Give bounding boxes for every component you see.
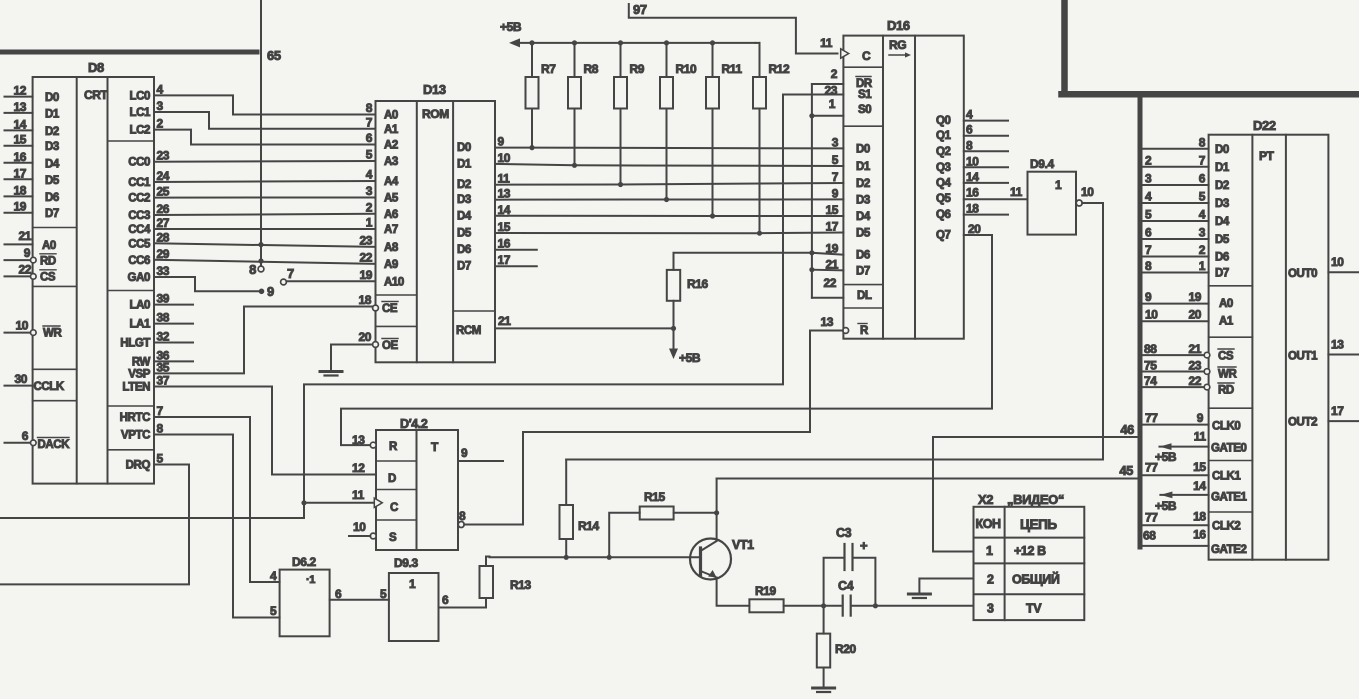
svg-text:19: 19 xyxy=(359,268,372,282)
wire D0 data line D13 to D16 xyxy=(495,147,843,150)
svg-text:R7: R7 xyxy=(541,62,556,76)
D22 pin 1 D7 xyxy=(1143,272,1209,274)
wire D3 data line D13 to D16 xyxy=(495,198,843,200)
svg-text:9: 9 xyxy=(1145,290,1152,304)
wire D7 stub from D13 xyxy=(495,265,537,267)
wire R11 top to rail xyxy=(712,43,714,77)
svg-text:21: 21 xyxy=(1188,342,1201,356)
svg-text:D0: D0 xyxy=(1215,144,1229,156)
wire D6 stub from D13 xyxy=(495,249,537,251)
svg-text:HLGT: HLGT xyxy=(120,338,150,350)
svg-text:9: 9 xyxy=(498,135,505,149)
svg-text:5: 5 xyxy=(157,452,164,466)
D8 pin 19 D7 xyxy=(5,212,33,214)
svg-text:CC0: CC0 xyxy=(128,157,150,169)
svg-text:13: 13 xyxy=(13,100,26,114)
svg-text:1: 1 xyxy=(366,216,373,230)
svg-text:R15: R15 xyxy=(644,490,666,504)
svg-text:17: 17 xyxy=(13,166,26,180)
svg-text:18: 18 xyxy=(13,183,26,197)
svg-text:74: 74 xyxy=(1144,374,1157,388)
D16 pin 22 DL input wire xyxy=(812,297,844,299)
svg-text:D7: D7 xyxy=(856,265,870,277)
D13 left column divider xyxy=(376,294,417,296)
svg-text:HRTC: HRTC xyxy=(120,412,150,424)
svg-text:A8: A8 xyxy=(384,242,399,254)
wire Q7 to flip-flop R (long path) xyxy=(341,235,992,445)
svg-text:A3: A3 xyxy=(384,156,398,168)
svg-text:A7: A7 xyxy=(384,224,398,236)
wire C3 right leg xyxy=(854,558,876,606)
wire S1 long path to flip-flop C xyxy=(0,95,843,519)
svg-text:RD: RD xyxy=(40,255,56,267)
resistor R9 xyxy=(614,77,627,109)
svg-text:VSP: VSP xyxy=(128,368,151,380)
svg-text:6: 6 xyxy=(966,123,973,137)
svg-text:7: 7 xyxy=(157,404,164,418)
svg-text:68: 68 xyxy=(1143,529,1156,543)
wire D5 data line D13 to D16 xyxy=(495,232,843,235)
svg-text:+5В: +5В xyxy=(1155,499,1177,513)
svg-text:RD: RD xyxy=(1218,385,1234,397)
svg-text:WR: WR xyxy=(1218,369,1237,381)
svg-text:22: 22 xyxy=(18,263,31,277)
svg-text:77: 77 xyxy=(1145,411,1158,425)
svg-text:26: 26 xyxy=(157,202,170,216)
svg-text:D3: D3 xyxy=(45,141,59,153)
svg-text:CLK1: CLK1 xyxy=(1212,471,1241,483)
svg-text:A2: A2 xyxy=(384,140,398,152)
wire CC1 to A4 xyxy=(154,181,376,182)
D8 pin 21 A0 xyxy=(5,243,33,245)
junction dot at flip-flop C line xyxy=(301,500,306,505)
svg-text:8: 8 xyxy=(1199,135,1206,149)
svg-text:CC5: CC5 xyxy=(128,238,151,250)
D16 left column cell dividers xyxy=(843,66,883,68)
svg-text:33: 33 xyxy=(157,264,170,278)
wire CC5 to A8 xyxy=(154,243,376,247)
svg-text:OUT1: OUT1 xyxy=(1288,351,1318,363)
svg-text:D7: D7 xyxy=(45,208,59,220)
svg-text:17: 17 xyxy=(498,253,511,267)
D8 pin 10 WR (active low) xyxy=(5,332,31,334)
svg-text:8: 8 xyxy=(966,138,973,152)
wire pin 8 to D16 R pin xyxy=(464,331,843,525)
wire line 45 to bus (CLK1) xyxy=(717,478,1140,480)
svg-text:25: 25 xyxy=(157,185,170,199)
svg-text:„ВИДЕО“: „ВИДЕО“ xyxy=(1007,492,1064,507)
wire blink vertical DR/S0/D6/D7/DL chain xyxy=(811,84,813,298)
svg-text:3: 3 xyxy=(366,184,373,198)
wire R7 top to rail xyxy=(531,43,533,77)
svg-text:D4: D4 xyxy=(457,210,472,222)
svg-text:88: 88 xyxy=(1144,342,1157,356)
D8 pin 17 D5 xyxy=(5,178,33,180)
svg-text:RG: RG xyxy=(889,38,906,52)
svg-text:18: 18 xyxy=(1193,510,1206,524)
svg-text:DRQ: DRQ xyxy=(126,460,151,472)
svg-text:10: 10 xyxy=(966,154,979,168)
wire R20 bottom to ground xyxy=(823,668,825,687)
svg-text:D3: D3 xyxy=(856,194,870,206)
svg-text:DACK: DACK xyxy=(38,439,71,451)
node 8 jumper pad at end of line 65 xyxy=(258,266,264,272)
svg-text:37: 37 xyxy=(157,374,170,388)
svg-text:A10: A10 xyxy=(384,276,404,288)
svg-text:LC2: LC2 xyxy=(129,125,150,137)
svg-text:13: 13 xyxy=(820,315,833,329)
svg-text:1: 1 xyxy=(409,577,416,591)
svg-text:2: 2 xyxy=(157,117,164,131)
D22 pin 22 RD (active low) xyxy=(1143,386,1205,388)
wire C line from junction xyxy=(304,502,373,504)
wire VSP to CE xyxy=(154,307,373,374)
svg-text:8: 8 xyxy=(249,262,256,277)
wire R14 top to timer line xyxy=(565,460,567,506)
node 97 tap tick xyxy=(628,4,630,16)
svg-text:D6: D6 xyxy=(856,250,870,262)
svg-text:D5: D5 xyxy=(856,228,871,240)
svg-text:7: 7 xyxy=(1199,153,1206,167)
wire RCM to R16 xyxy=(495,327,674,329)
svg-text:R: R xyxy=(860,325,869,337)
svg-text:CS: CS xyxy=(1218,351,1234,363)
resistor R16 xyxy=(667,270,680,301)
svg-text:T: T xyxy=(431,440,439,454)
D22 pin 6 D2 xyxy=(1143,184,1209,186)
svg-text:GATE1: GATE1 xyxy=(1211,492,1247,504)
svg-text:22: 22 xyxy=(359,250,372,264)
svg-text:D8: D8 xyxy=(88,60,104,75)
svg-text:CC2: CC2 xyxy=(128,193,150,205)
svg-text:10: 10 xyxy=(1331,255,1344,269)
svg-text:5: 5 xyxy=(832,153,839,167)
svg-text:1: 1 xyxy=(1055,178,1062,192)
flip-flop D14.2 body xyxy=(376,430,458,550)
wire +12V line 46 from bus to X2 pin 1 xyxy=(933,437,1140,552)
svg-text:16: 16 xyxy=(1193,528,1206,542)
svg-text:S0: S0 xyxy=(858,104,871,116)
svg-text:16: 16 xyxy=(966,186,979,200)
svg-text:LTEN: LTEN xyxy=(122,382,150,394)
svg-text:3: 3 xyxy=(157,99,164,113)
D22 pin 9 CLK0 xyxy=(1143,424,1209,426)
svg-text:13: 13 xyxy=(352,433,365,447)
svg-text:PT: PT xyxy=(1259,149,1275,163)
svg-text:D3: D3 xyxy=(1215,198,1229,210)
wire Q5 to D9.4 input xyxy=(964,198,1028,200)
svg-text:+12 В: +12 В xyxy=(1014,544,1046,558)
svg-text:D16: D16 xyxy=(887,18,910,33)
svg-text:29: 29 xyxy=(157,247,170,261)
IC D16 register body xyxy=(843,36,963,339)
svg-text:D6: D6 xyxy=(457,244,471,256)
svg-text:CRT: CRT xyxy=(84,88,109,102)
svg-text:7: 7 xyxy=(366,115,373,129)
svg-text:7: 7 xyxy=(832,170,839,184)
svg-text:18: 18 xyxy=(966,202,979,216)
svg-text:8: 8 xyxy=(366,101,373,115)
node 65 - vertical tap wire from top edge xyxy=(260,0,262,266)
gate D6.2 body xyxy=(280,570,330,637)
svg-text:12: 12 xyxy=(13,84,26,98)
svg-text:5: 5 xyxy=(366,148,373,162)
wire D2 data line D13 to D16 xyxy=(495,183,843,185)
D8 pin 15 D3 xyxy=(5,145,33,147)
svg-text:CLK2: CLK2 xyxy=(1212,521,1240,533)
D22 pin 5 D3 xyxy=(1143,202,1209,204)
svg-text:9: 9 xyxy=(832,186,839,200)
svg-text:A0: A0 xyxy=(42,240,56,252)
svg-text:4: 4 xyxy=(270,569,277,583)
svg-text:Q5: Q5 xyxy=(936,193,952,205)
svg-text:LC1: LC1 xyxy=(129,107,151,119)
svg-text:ОБЩИЙ: ОБЩИЙ xyxy=(1012,572,1060,587)
svg-text:D4: D4 xyxy=(45,158,60,170)
svg-text:D7: D7 xyxy=(457,261,471,273)
D8 pin 16 D4 xyxy=(5,162,33,164)
svg-text:4: 4 xyxy=(157,82,164,96)
svg-text:D′4.2: D′4.2 xyxy=(400,417,428,431)
wire R12 top to rail xyxy=(759,43,761,77)
wire R14 bottom junction xyxy=(565,539,567,557)
svg-text:5: 5 xyxy=(270,604,277,618)
svg-text:11: 11 xyxy=(352,488,365,502)
svg-text:A0: A0 xyxy=(384,110,398,122)
wire S stub xyxy=(349,535,370,537)
svg-text:R8: R8 xyxy=(584,62,599,76)
svg-text:14: 14 xyxy=(498,203,511,217)
wire - top-right thick border vertical xyxy=(1061,0,1068,94)
connector X2 table xyxy=(974,507,1085,620)
svg-text:27: 27 xyxy=(157,216,170,230)
svg-text:C4: C4 xyxy=(838,579,854,593)
svg-text:77: 77 xyxy=(1145,461,1158,475)
svg-text:11: 11 xyxy=(498,172,511,186)
D22 pin 18 CLK2 xyxy=(1143,524,1209,526)
svg-text:S1: S1 xyxy=(858,89,872,101)
svg-text:D5: D5 xyxy=(457,228,472,240)
svg-text:Q3: Q3 xyxy=(936,162,951,174)
svg-text:D1: D1 xyxy=(1215,162,1230,174)
D8 pin 9 RD (active low) xyxy=(5,259,31,261)
IC D22 timer body xyxy=(1209,135,1329,560)
resistor R11 xyxy=(706,77,719,109)
svg-text:D1: D1 xyxy=(457,158,472,170)
wire R9 bottom to data line xyxy=(620,109,622,185)
wire R12 bottom to data line xyxy=(759,109,761,234)
svg-text:5: 5 xyxy=(380,587,387,601)
svg-text:CC1: CC1 xyxy=(128,177,151,189)
wire HRTC to D6.2 pin 4 xyxy=(154,417,280,582)
svg-text:11: 11 xyxy=(1010,185,1023,199)
svg-text:3: 3 xyxy=(1199,226,1206,240)
ground at R20 xyxy=(813,687,835,690)
wire D9.4 output down to R14 line xyxy=(1082,203,1103,460)
svg-text:OE: OE xyxy=(382,340,399,352)
svg-text:C: C xyxy=(862,49,871,63)
wire CC6 to A9 xyxy=(154,260,376,264)
svg-text:D1: D1 xyxy=(856,161,871,173)
svg-text:3: 3 xyxy=(832,135,839,149)
svg-text:ROM: ROM xyxy=(422,107,449,121)
wire LC2 to A2 xyxy=(154,130,376,145)
wire R9 top to rail xyxy=(620,43,622,77)
wire R8 bottom to data line xyxy=(574,109,576,166)
svg-text:35: 35 xyxy=(157,360,170,374)
svg-text:GATE0: GATE0 xyxy=(1211,443,1247,455)
wire R11 bottom to data line xyxy=(712,109,714,217)
svg-text:Q1: Q1 xyxy=(936,130,952,142)
wire LC1 to A1 xyxy=(154,112,376,129)
svg-text:CC3: CC3 xyxy=(128,210,150,222)
svg-text:Q2: Q2 xyxy=(936,146,951,158)
svg-text:CC4: CC4 xyxy=(128,224,151,236)
svg-text:5: 5 xyxy=(1199,190,1206,204)
svg-text:R: R xyxy=(389,441,398,453)
svg-text:15: 15 xyxy=(825,203,838,217)
svg-text:9: 9 xyxy=(461,446,468,460)
svg-text:2: 2 xyxy=(1199,243,1206,257)
wire X2 pin 2 to ground xyxy=(919,579,973,593)
svg-text:Q6: Q6 xyxy=(936,209,951,221)
wire R10 top to rail xyxy=(666,43,668,77)
svg-text:38: 38 xyxy=(157,311,170,325)
svg-text:1: 1 xyxy=(829,97,836,111)
wire R19 to C4 junction xyxy=(784,605,841,607)
svg-text:+5В: +5В xyxy=(679,351,701,365)
ground at X2 pin 2 xyxy=(908,593,930,596)
svg-text:3: 3 xyxy=(1145,172,1152,186)
svg-text:R14: R14 xyxy=(578,519,600,533)
D22 pin 11 GATE0 tied to +5V xyxy=(1160,446,1209,448)
wire - top-right thick border horizontal xyxy=(1062,91,1359,98)
svg-text:4: 4 xyxy=(1145,190,1152,204)
gate D9.3 body xyxy=(389,573,439,641)
wire R20 top xyxy=(823,606,825,634)
svg-text:10: 10 xyxy=(1145,308,1158,322)
svg-text:LA0: LA0 xyxy=(129,300,150,312)
svg-text:D: D xyxy=(388,473,396,485)
D22 pin 23 WR (active low) xyxy=(1143,371,1205,373)
wire R16 bottom to +5V arrow xyxy=(673,301,675,349)
svg-text:39: 39 xyxy=(157,292,170,306)
svg-text:6: 6 xyxy=(22,429,29,443)
svg-text:19: 19 xyxy=(825,242,838,256)
D22 pin 19 A0 xyxy=(1143,303,1209,305)
svg-text:4: 4 xyxy=(366,168,373,182)
svg-text:R16: R16 xyxy=(687,277,709,291)
svg-text:13: 13 xyxy=(1331,338,1344,352)
D22 pin 16 GATE2 xyxy=(1143,545,1209,547)
svg-text:D3: D3 xyxy=(457,194,471,206)
svg-text:1: 1 xyxy=(1199,259,1206,273)
svg-text:11: 11 xyxy=(1194,430,1207,444)
svg-text:D0: D0 xyxy=(856,143,870,155)
svg-text:R13: R13 xyxy=(510,578,532,592)
D8 pin 14 D2 xyxy=(5,129,33,131)
svg-text:10: 10 xyxy=(15,319,28,333)
resistor R19 xyxy=(749,599,783,612)
svg-text:24: 24 xyxy=(157,169,170,183)
svg-text:VT1: VT1 xyxy=(732,538,754,552)
svg-text:D2: D2 xyxy=(45,126,59,138)
wire VT1 collector to line 45 xyxy=(716,479,718,541)
svg-text:20: 20 xyxy=(1188,308,1201,322)
svg-text:D5: D5 xyxy=(45,175,60,187)
svg-text:GA0: GA0 xyxy=(128,272,150,284)
wire VPTC to D6.2 pin 5 xyxy=(154,435,280,618)
resistor R13 xyxy=(480,566,494,598)
svg-text:46: 46 xyxy=(1120,422,1134,437)
D8 left column dividers xyxy=(33,227,77,229)
svg-text:D22: D22 xyxy=(1253,118,1276,133)
wire LC0 to A0 xyxy=(154,95,376,114)
svg-text:2: 2 xyxy=(366,200,373,214)
svg-text:6: 6 xyxy=(366,131,373,145)
D22 pin 14 GATE1 tied to +5V xyxy=(1160,494,1208,496)
svg-text:A1: A1 xyxy=(384,124,399,136)
transistor VT1 xyxy=(690,539,731,580)
svg-text:16: 16 xyxy=(13,150,26,164)
svg-text:15: 15 xyxy=(13,133,26,147)
resistor R7 xyxy=(526,77,539,109)
svg-text:S: S xyxy=(389,532,397,544)
svg-text:7: 7 xyxy=(287,266,294,281)
D9.4 pin 10 inverted output xyxy=(1076,200,1082,206)
svg-text:+5В: +5В xyxy=(500,20,522,34)
svg-text:12: 12 xyxy=(352,461,365,475)
svg-text:D7: D7 xyxy=(1215,268,1229,280)
resistor R14 xyxy=(560,505,574,539)
svg-text:VPTC: VPTC xyxy=(121,430,150,442)
svg-text:2: 2 xyxy=(1145,153,1152,167)
node 7 jumper pad xyxy=(281,279,287,285)
svg-text:·1: ·1 xyxy=(306,574,315,586)
resistor R20 xyxy=(817,634,830,668)
svg-text:21: 21 xyxy=(498,314,511,328)
resistor R15 xyxy=(640,507,674,520)
svg-text:23: 23 xyxy=(157,149,170,163)
svg-text:15: 15 xyxy=(498,220,511,234)
wire +5V rail xyxy=(518,42,756,44)
svg-text:LC0: LC0 xyxy=(129,90,150,102)
svg-text:A4: A4 xyxy=(384,176,399,188)
D22 pin 21 CS (active low) xyxy=(1143,354,1205,356)
svg-text:30: 30 xyxy=(14,372,27,386)
svg-text:9: 9 xyxy=(1197,411,1204,425)
svg-text:16: 16 xyxy=(498,237,511,251)
svg-text:A6: A6 xyxy=(384,209,398,221)
svg-text:A5: A5 xyxy=(384,193,399,205)
wire CC3 to A6 xyxy=(154,214,376,215)
svg-text:9: 9 xyxy=(24,246,31,260)
resistor R12 xyxy=(753,77,766,109)
svg-text:D1: D1 xyxy=(45,108,60,120)
svg-text:20: 20 xyxy=(968,222,981,236)
svg-text:19: 19 xyxy=(1188,290,1201,304)
wire R16 top to D6 line of D16 xyxy=(674,253,812,270)
svg-text:65: 65 xyxy=(267,48,281,63)
svg-text:D2: D2 xyxy=(457,179,471,191)
wire CC2 to A5 xyxy=(154,197,376,199)
svg-text:4: 4 xyxy=(1199,208,1206,222)
svg-text:15: 15 xyxy=(1193,460,1206,474)
D22 pin 15 CLK1 xyxy=(1143,474,1209,476)
wire timer line R14 to D9.4 output xyxy=(566,459,1103,461)
D8 pin 30 CCLK xyxy=(5,385,33,387)
svg-text:D9.4: D9.4 xyxy=(1030,157,1054,171)
